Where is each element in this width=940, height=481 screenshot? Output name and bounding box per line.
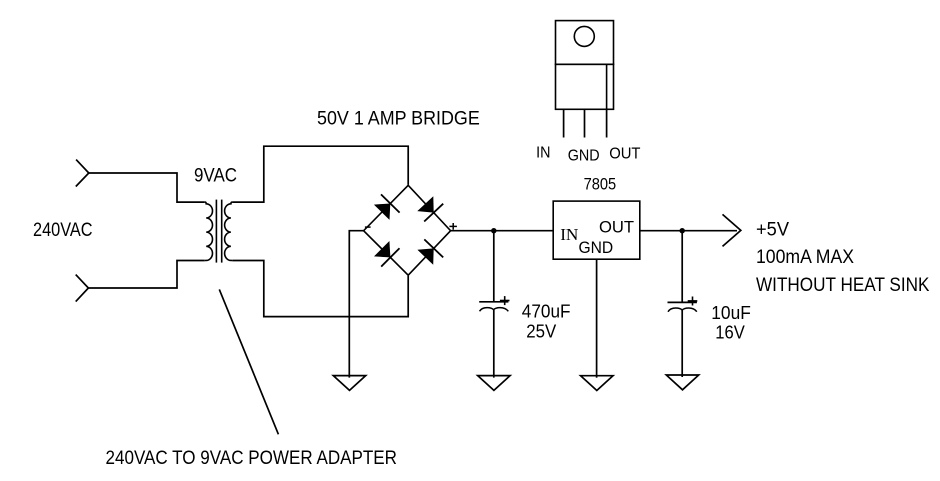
wire: regulator OUT to +5V terminal xyxy=(640,230,737,232)
capacitor C1 470uF 25V xyxy=(479,296,509,311)
wire: bridge DC+ to regulator IN xyxy=(451,230,554,232)
svg-text:240VAC TO 9VAC POWER ADAPTER: 240VAC TO 9VAC POWER ADAPTER xyxy=(106,448,398,469)
svg-text:IN: IN xyxy=(536,144,550,161)
svg-text:7805: 7805 xyxy=(584,175,617,193)
transformer T1 core xyxy=(216,200,221,263)
svg-text:9VAC: 9VAC xyxy=(194,166,237,187)
junction node: C1 / IN rail xyxy=(491,228,496,233)
ground (C1) xyxy=(478,376,510,391)
bridge rectifier BR1 diamond outline xyxy=(364,185,451,275)
capacitor C2 10uF 16V xyxy=(668,297,698,312)
diode D3 (DC- to bottom AC node) xyxy=(374,241,400,267)
terminal: 240VAC input bottom arrow xyxy=(76,275,89,302)
callout line: transformer to adapter note xyxy=(219,289,278,434)
svg-text:GND: GND xyxy=(579,238,614,257)
diode D1 (AC- to top AC node) xyxy=(374,194,400,220)
wire: secondary top to bridge AC node (top) xyxy=(232,146,408,202)
svg-text:25V: 25V xyxy=(526,320,557,341)
7805 TO-220 package: body inner edge line xyxy=(606,64,608,109)
svg-text:100mA MAX: 100mA MAX xyxy=(756,247,854,268)
junction node: C2 / OUT rail xyxy=(680,228,685,233)
7805 TO-220 package: pin 3 lead (OUT) xyxy=(606,109,608,137)
wire: secondary bottom to bridge AC node (bottom) xyxy=(232,261,408,317)
diode D2 (top AC node to DC+) xyxy=(417,196,443,221)
regulator U1 7805 body xyxy=(553,201,640,259)
wire: capacitor C1 to ground xyxy=(493,310,495,378)
transformer T1 primary winding xyxy=(205,202,213,260)
wire: bottom 240VAC lead to transformer primary xyxy=(88,261,204,289)
wire: rail down to capacitor C1 xyxy=(493,231,495,302)
ground (C2) xyxy=(666,375,698,390)
svg-text:IN: IN xyxy=(560,225,579,244)
terminal: 240VAC input top arrow xyxy=(76,160,89,187)
svg-text:OUT: OUT xyxy=(599,217,634,236)
polarity mark + at bridge DC+ xyxy=(449,223,457,230)
svg-text:GND: GND xyxy=(568,147,600,164)
svg-text:WITHOUT HEAT SINK: WITHOUT HEAT SINK xyxy=(756,275,930,296)
svg-text:10uF: 10uF xyxy=(711,302,751,323)
ground (U1 GND) xyxy=(581,376,613,391)
wire: capacitor C2 to ground xyxy=(681,310,683,377)
7805 TO-220 package: heatsink tab outline xyxy=(556,21,614,65)
terminal: +5V output arrow xyxy=(723,214,741,246)
polarity mark - at bridge DC- xyxy=(365,226,371,228)
diode D4 (bottom AC node to DC+) xyxy=(417,239,443,264)
7805 TO-220 package: mounting hole xyxy=(574,26,594,46)
7805 TO-220 package: pin 2 lead (GND) xyxy=(584,109,586,137)
transformer T1 secondary winding xyxy=(225,202,233,260)
wire: top 240VAC lead to transformer primary xyxy=(89,173,205,202)
7805 TO-220 package: body xyxy=(556,64,614,109)
svg-text:50V 1 AMP BRIDGE: 50V 1 AMP BRIDGE xyxy=(317,108,480,129)
wire: rail down to capacitor C2 xyxy=(681,231,683,303)
7805 TO-220 package: pin 1 lead (IN) xyxy=(563,109,565,137)
svg-text:16V: 16V xyxy=(715,321,745,342)
wire: regulator GND to ground xyxy=(596,259,598,378)
svg-text:240VAC: 240VAC xyxy=(33,220,93,241)
svg-text:470uF: 470uF xyxy=(522,301,571,322)
svg-text:+5V: +5V xyxy=(756,220,789,241)
svg-text:OUT: OUT xyxy=(609,146,641,163)
wire: bridge DC- to ground xyxy=(349,231,363,378)
ground (bridge DC-) xyxy=(333,376,365,391)
